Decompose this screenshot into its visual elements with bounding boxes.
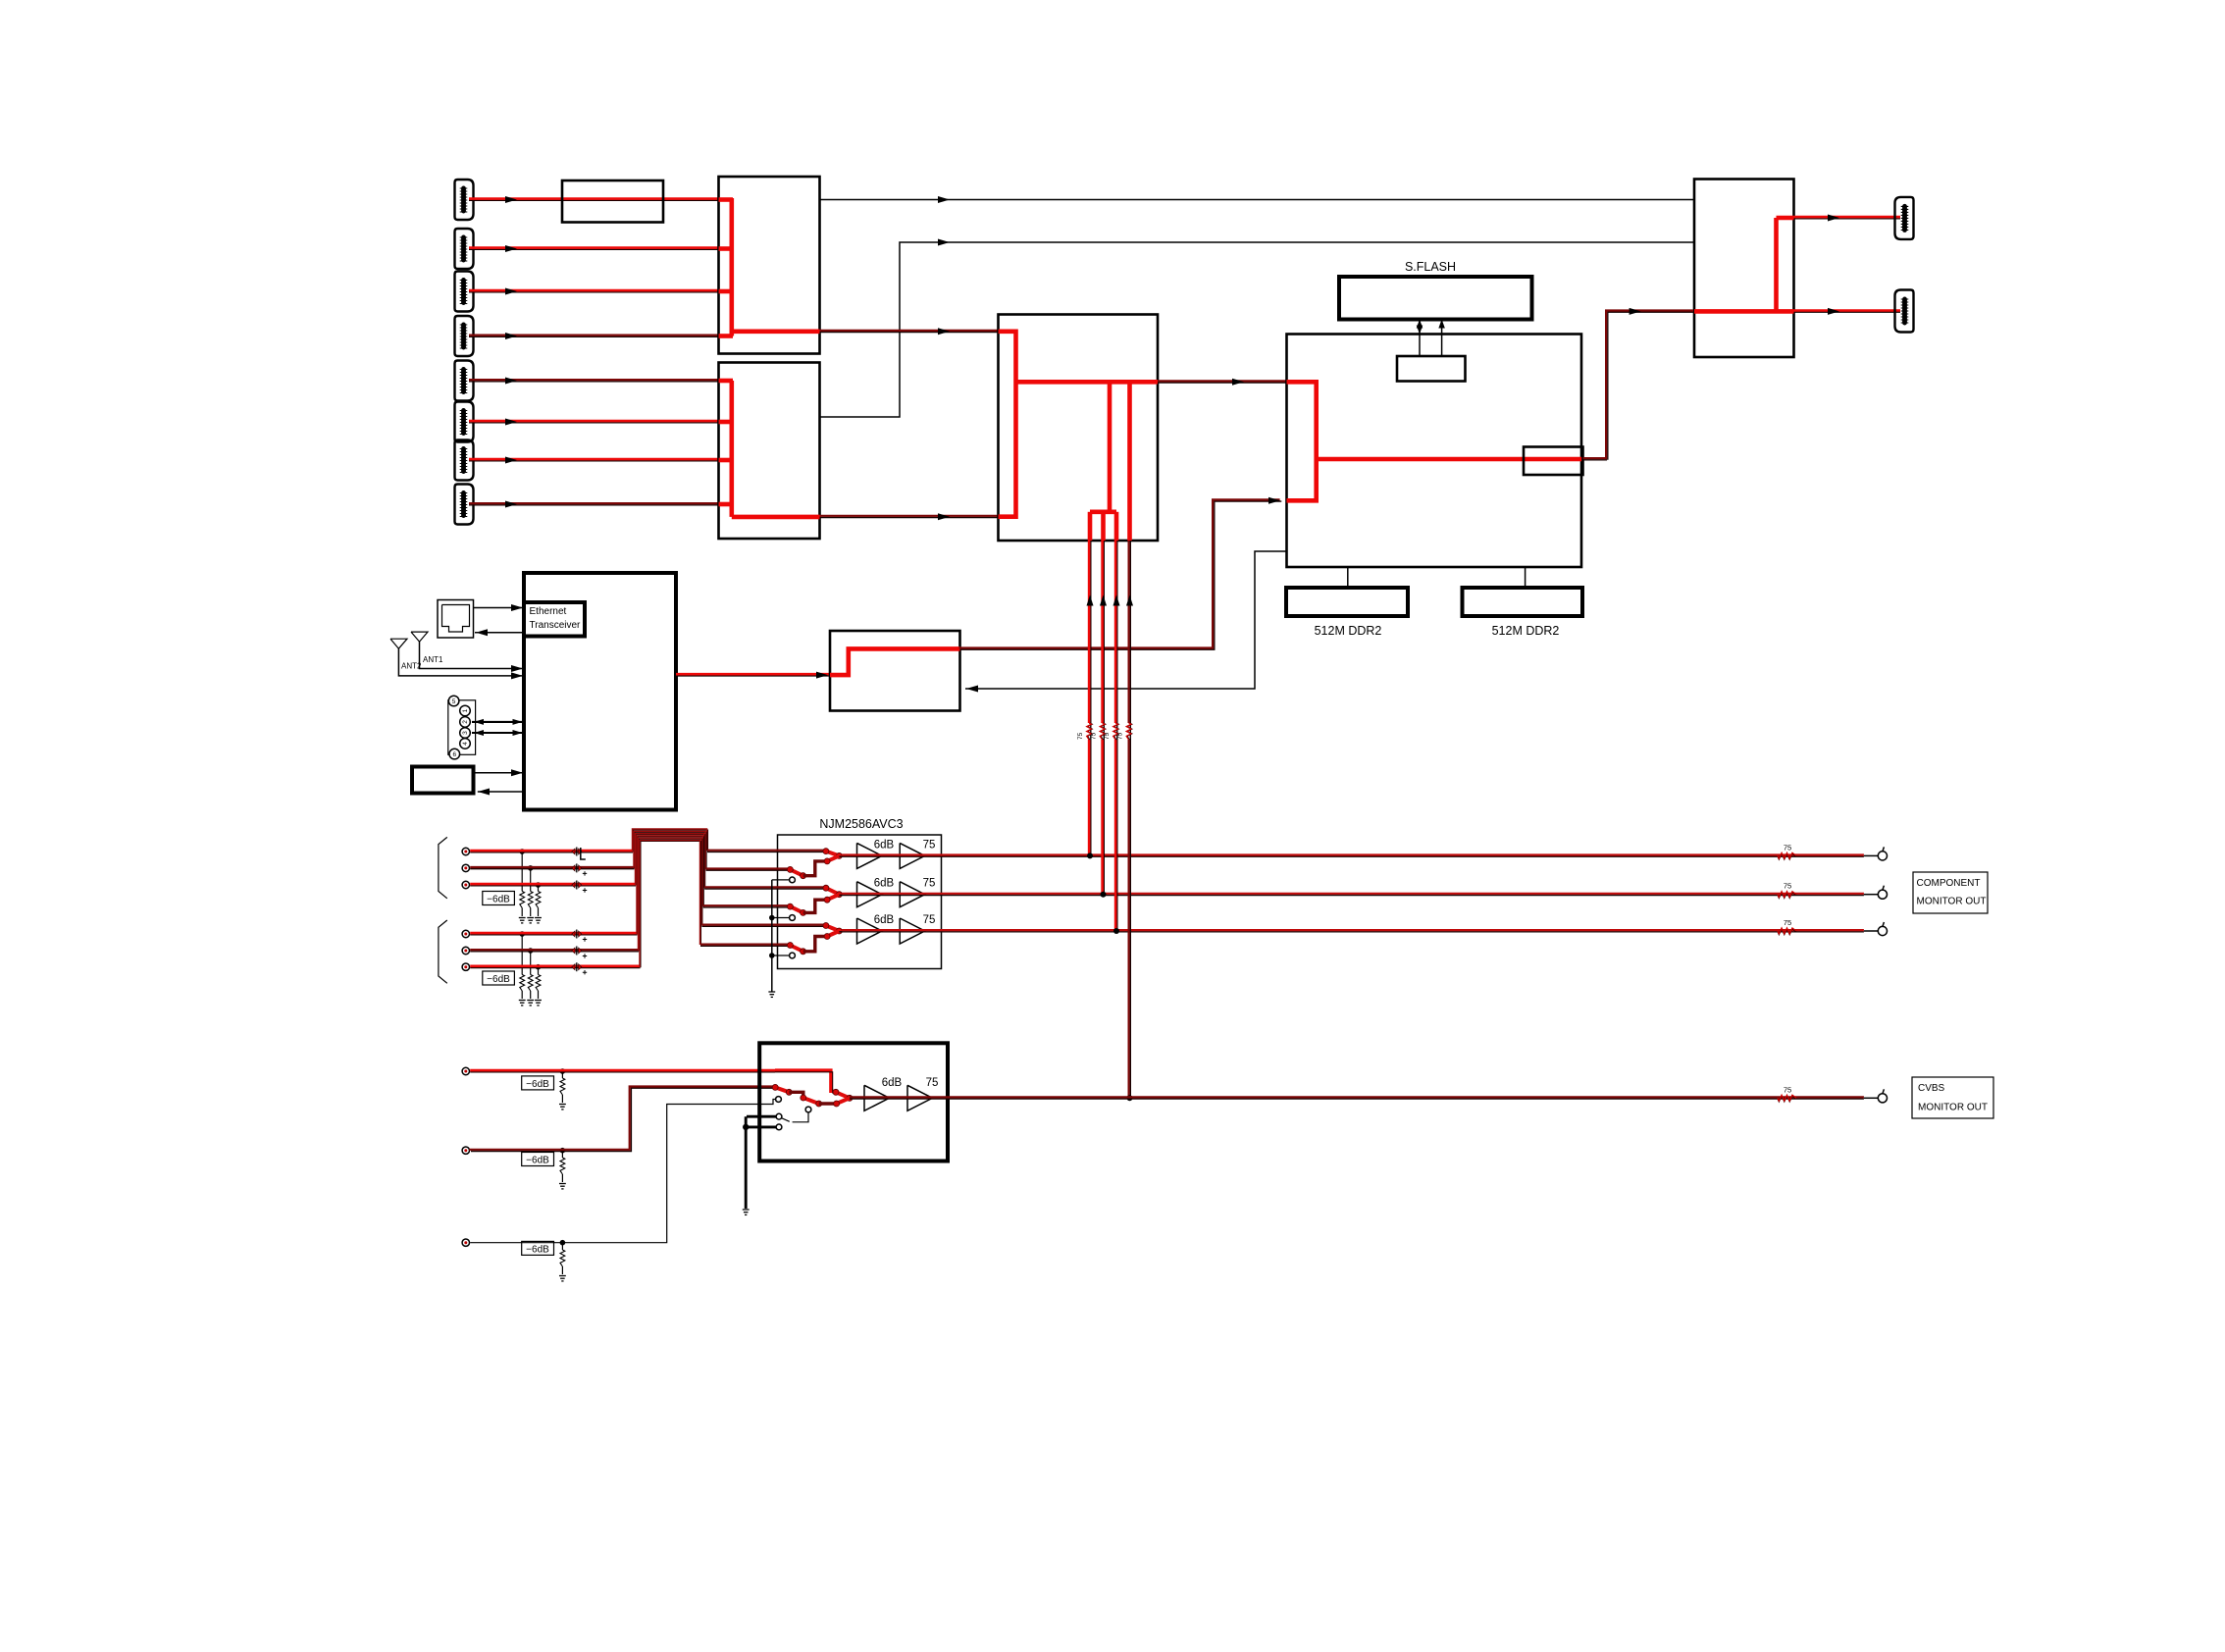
coupling cap C2 (572, 863, 587, 875)
wire J4 to switch (469, 333, 719, 339)
svg-text:5: 5 (452, 698, 456, 705)
op-amp A6 (900, 918, 925, 944)
termination resistors group2 (519, 931, 542, 1006)
video processor U3 (999, 315, 1159, 542)
wire bundle hump 6 (640, 841, 701, 968)
terminal component out 1 (1878, 847, 1887, 860)
op-amp A5 (857, 918, 883, 944)
wire RJ45 rx (475, 629, 524, 636)
svg-text:ANT1: ANT1 (423, 655, 443, 664)
terminal CVBS out (1878, 1089, 1887, 1103)
svg-text:75: 75 (1077, 732, 1084, 740)
label S.FLASH (1405, 260, 1456, 274)
svg-text:512M DDR2: 512M DDR2 (1315, 624, 1382, 638)
op-amp A4 (900, 882, 925, 907)
HDMI switch U1 (719, 177, 820, 354)
memory DDR1 (1286, 588, 1408, 616)
antenna ANT1 (411, 632, 524, 672)
wire U8 to U10 (676, 672, 830, 679)
wire U2 out to U5 (820, 239, 1695, 418)
resistor 75 riser 1 (1077, 723, 1092, 740)
connector J6 (input) (455, 402, 474, 442)
wire U10 to U4 (959, 497, 1282, 649)
wire amp ch2 output (839, 894, 1864, 896)
wire component in 4 (470, 933, 637, 935)
op-amp A3 (857, 882, 883, 907)
svg-text:3: 3 (462, 731, 469, 735)
wire component in 2 (470, 867, 634, 869)
svg-text:75: 75 (923, 878, 936, 890)
terminal component in 2 (462, 864, 469, 871)
svg-text:S.FLASH: S.FLASH (1405, 260, 1456, 274)
wire component in 3 (470, 884, 636, 886)
brace input group2 (439, 920, 447, 983)
terminal CVBS in 3 (462, 1239, 469, 1246)
wire loopthrough riser 4 (1126, 541, 1133, 1101)
wire ch3 to jack (1864, 930, 1879, 932)
connector J7 (input) (455, 440, 474, 481)
CVBS select contacts (743, 1097, 811, 1215)
mute contacts U11 (768, 877, 795, 997)
label 6dB ch2 (874, 878, 895, 890)
connector J9 (output) (1895, 197, 1914, 239)
label 6dB ch1 (874, 839, 895, 851)
svg-text:75: 75 (923, 839, 936, 851)
brace input group1 (439, 837, 447, 898)
console connector J12 (448, 696, 476, 759)
wire TX to J10 (1794, 308, 1901, 315)
svg-text:75: 75 (926, 1077, 939, 1089)
terminal component out 2 (1878, 886, 1887, 900)
svg-text:−6dB: −6dB (526, 1244, 549, 1255)
wifi module U10 (830, 631, 960, 711)
terminal component in 6 (462, 963, 469, 970)
termination resistors group1 (519, 849, 542, 923)
flash ctrl box (1397, 356, 1466, 382)
label ANT2 (401, 662, 422, 671)
red bus in U4 (1287, 382, 1583, 500)
wire J12 pin3 (472, 730, 524, 736)
red bus in U5 (1694, 218, 1794, 311)
svg-text:−6dB: −6dB (526, 1156, 549, 1166)
coupling cap C4 (572, 930, 587, 942)
svg-text:6dB: 6dB (874, 914, 895, 926)
svg-text:−6dB: −6dB (487, 974, 510, 985)
resistor 75 ch3 (1778, 918, 1796, 935)
attenuator label -6dB g1 (483, 892, 515, 905)
wire U4-DDR2 (1525, 567, 1526, 588)
EMI filter FL1 (562, 181, 663, 223)
svg-text:512M DDR2: 512M DDR2 (1492, 624, 1560, 638)
svg-text:Ethernet: Ethernet (530, 606, 567, 617)
red bus in U10 (830, 648, 960, 675)
wire amp ch2 inputs (703, 887, 826, 907)
terminal component in 4 (462, 930, 469, 937)
svg-text:MONITOR OUT: MONITOR OUT (1918, 1103, 1988, 1113)
svg-text:Transceiver: Transceiver (530, 620, 582, 631)
connector J8 (input) (455, 485, 474, 525)
wire U1 out to U5 (820, 196, 1695, 203)
label Ethernet (530, 606, 582, 631)
wire component in 1 (470, 851, 633, 852)
wire U3 to U4 (1158, 379, 1287, 386)
terminal component in 1 (462, 848, 469, 854)
terminal component in 5 (462, 947, 469, 954)
op-amp A2 (900, 843, 925, 868)
resistor 75 ch2 (1778, 882, 1796, 899)
red bus in U3 (999, 332, 1159, 541)
svg-text:CVBS: CVBS (1918, 1083, 1945, 1094)
svg-text:6dB: 6dB (874, 839, 895, 851)
svg-text:75: 75 (1104, 732, 1111, 740)
wire component in 6 (470, 966, 640, 968)
label CVBS MONITOR OUT (1912, 1077, 1993, 1118)
RJ45 jack J11 (438, 600, 474, 639)
terminal component out 3 (1878, 922, 1887, 936)
termination CVBS 1 (559, 1068, 566, 1110)
wire bundle hump 5 (639, 838, 702, 951)
red bus in U2 (719, 381, 820, 517)
resistor 75 riser 3 (1104, 723, 1118, 740)
switch amp ch3 (787, 923, 842, 955)
terminal CVBS in 2 (462, 1147, 469, 1154)
resistor 75 ch1 (1778, 843, 1796, 859)
svg-text:−6dB: −6dB (526, 1079, 549, 1090)
svg-text:1: 1 (462, 708, 469, 712)
SoC U4 (1287, 335, 1582, 568)
wire bundle hump 4 (637, 836, 703, 935)
wire loopthrough riser 2 (1100, 541, 1107, 898)
wire J8 to switch (469, 501, 719, 508)
memory DDR2 (1463, 588, 1583, 616)
svg-text:75: 75 (1784, 1085, 1791, 1094)
terminal CVBS in 1 (462, 1067, 469, 1074)
wire J3 to switch (469, 288, 719, 295)
wire bundle hump 3 (636, 834, 705, 889)
switch amp ch1 (787, 849, 842, 879)
wire J6 to switch (469, 419, 719, 426)
resistor 75 cvbs (1778, 1085, 1796, 1102)
svg-text:4: 4 (462, 742, 469, 746)
svg-text:6: 6 (452, 751, 456, 758)
wire J12 pin2 (472, 719, 524, 725)
wire J7 to switch (469, 457, 719, 464)
svg-text:NJM2586AVC3: NJM2586AVC3 (819, 817, 903, 831)
wire loopthrough riser 3 (1113, 541, 1120, 934)
wire TX to J9 (1794, 215, 1901, 222)
HDMI TX U5 (1694, 180, 1794, 358)
wire amp ch3 output (839, 930, 1864, 932)
op-amp A8 (907, 1085, 933, 1110)
wire U9 a (474, 769, 525, 776)
svg-text:COMPONENT: COMPONENT (1917, 878, 1981, 889)
svg-text:MONITOR OUT: MONITOR OUT (1917, 897, 1987, 907)
label ANT1 (423, 655, 443, 664)
label 75 ch1 (923, 839, 936, 851)
termination CVBS 2 (559, 1148, 566, 1189)
label 75 cvbs (926, 1077, 939, 1089)
coupling cap C6 (572, 962, 587, 974)
attenuator label -6dB c3 (522, 1241, 554, 1255)
op-amp A7 (864, 1085, 890, 1110)
wire RJ45 tx (474, 604, 525, 611)
termination CVBS 3 (559, 1240, 566, 1281)
svg-text:6dB: 6dB (882, 1077, 903, 1089)
attenuator label -6dB c1 (522, 1076, 554, 1090)
wire CVBS output (850, 1097, 1864, 1099)
ethernet SoC U8 (524, 573, 676, 810)
wire U1 video out (820, 328, 999, 335)
wire U2 video out (820, 513, 999, 520)
label 6dB ch3 (874, 914, 895, 926)
svg-text:75: 75 (1117, 732, 1124, 740)
resistor 75 riser 2 (1091, 723, 1106, 740)
wire bundle hump 2 (634, 831, 706, 870)
wire ch1 to jack (1864, 854, 1879, 856)
svg-text:75: 75 (1784, 918, 1791, 927)
red bus in U1 (719, 198, 820, 336)
svg-text:75: 75 (1091, 732, 1098, 740)
wire U4 to U10 return (965, 551, 1287, 693)
wire cvbs to jack (1864, 1097, 1879, 1099)
antenna ANT2 (390, 639, 524, 679)
wire CVBS in1 (470, 1070, 835, 1093)
connector J1 (input) (455, 180, 474, 220)
attenuator label -6dB c2 (522, 1153, 554, 1166)
HDMI switch U2 (719, 363, 820, 540)
label box Ethernet Transceiver (524, 602, 585, 637)
wire amp ch1 output (839, 855, 1864, 857)
resistor 75 riser 4 (1117, 723, 1132, 740)
wire amp ch3 inputs (700, 925, 826, 947)
EEPROM U9 (412, 767, 474, 794)
svg-text:75: 75 (923, 914, 936, 926)
attenuator label -6dB g2 (483, 971, 515, 985)
connector J4 (input) (455, 316, 474, 356)
connector J10 (output) (1895, 290, 1914, 333)
flash memory U6 (1339, 277, 1532, 320)
terminal component in 3 (462, 881, 469, 888)
video DAC U7 (1524, 447, 1583, 476)
svg-text:−6dB: −6dB (487, 895, 510, 905)
switch CVBS (772, 1084, 853, 1107)
svg-text:2: 2 (462, 720, 469, 724)
connector J2 (input) (455, 229, 474, 269)
wire loopthrough riser 1 (1087, 541, 1094, 858)
wire U4-DDR1 (1347, 567, 1349, 588)
wire J5 to switch (469, 378, 719, 385)
svg-text:75: 75 (1784, 882, 1791, 891)
svg-text:ANT2: ANT2 (401, 662, 422, 671)
label 6dB cvbs (882, 1077, 903, 1089)
label NJM2586AVC3 (819, 817, 903, 831)
label 512M DDR1 (1315, 624, 1382, 638)
coupling cap C5 (572, 947, 587, 958)
coupling cap C1 (572, 848, 586, 860)
wire component in 5 (470, 950, 639, 952)
wire CVBS in2 (469, 1087, 776, 1152)
wire U9 b (478, 789, 524, 796)
wire J2 to switch (469, 245, 719, 252)
label 75 ch2 (923, 878, 936, 890)
coupling cap C3 (572, 881, 587, 893)
wire J1 to switch (469, 196, 719, 203)
label 75 ch3 (923, 914, 936, 926)
wire ch2 to jack (1864, 894, 1879, 896)
video amp U11 NJM2586AVC3 (778, 835, 942, 969)
flash bus arrows (1417, 320, 1445, 335)
flash ctrl stubs (1420, 335, 1442, 357)
wire CVBS in3 (470, 1100, 775, 1243)
wire amp ch1 inputs (706, 851, 826, 871)
CVBS switch box U12 (759, 1043, 948, 1161)
switch amp ch2 (787, 885, 842, 915)
label COMPONENT MONITOR OUT (1913, 872, 1988, 913)
wire bundle hump 1 (633, 829, 708, 852)
op-amp A1 (857, 843, 883, 868)
svg-text:75: 75 (1784, 843, 1791, 852)
wire U7 to TX (1583, 308, 1695, 460)
connector J3 (input) (455, 272, 474, 312)
connector J5 (input) (455, 361, 474, 401)
label 512M DDR2 (1492, 624, 1560, 638)
svg-text:6dB: 6dB (874, 878, 895, 890)
